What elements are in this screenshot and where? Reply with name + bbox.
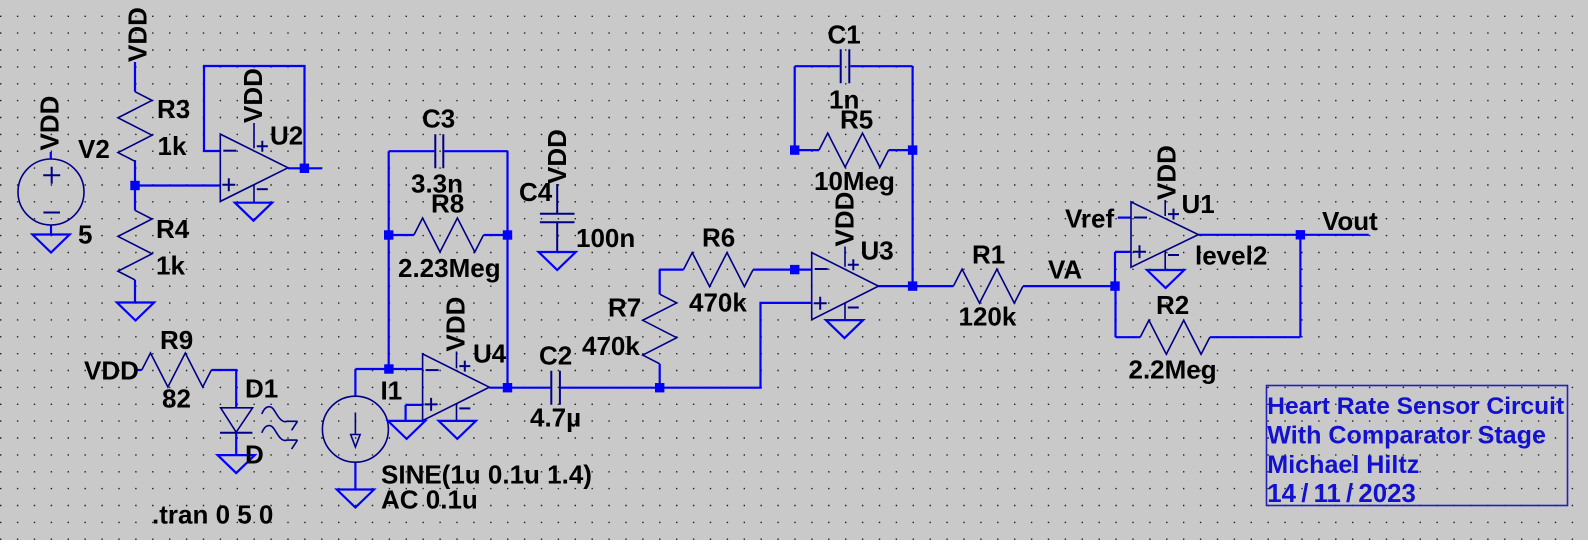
wire feedback down to U4 output	[506, 235, 508, 388]
svg-text:V2: V2	[78, 134, 110, 164]
svg-text:120k: 120k	[959, 302, 1017, 332]
current source I1	[322, 396, 388, 462]
svg-text:VDD: VDD	[84, 356, 139, 386]
resistor R1	[953, 269, 1023, 303]
wire U2 output stub	[288, 167, 322, 169]
capacitor C4	[540, 214, 575, 223]
svg-text:Vref: Vref	[1065, 204, 1114, 234]
svg-text:Heart Rate Sensor Circuit: Heart Rate Sensor Circuit	[1267, 393, 1564, 420]
ground D1	[218, 455, 255, 473]
op-amp U1	[1131, 200, 1198, 270]
wire I1 bottom to ground	[354, 462, 356, 489]
svg-text:C3: C3	[422, 104, 455, 134]
svg-text:U4: U4	[473, 339, 507, 369]
wire VDD label to R9	[135, 369, 142, 371]
wire C2 node to U3 +in	[660, 303, 812, 388]
svg-text:VDD: VDD	[542, 129, 572, 184]
wire R2 right lead	[1210, 336, 1301, 338]
wire R6 to U3 -in	[753, 269, 812, 271]
ground I1	[337, 490, 374, 508]
svg-text:AC 0.1u: AC 0.1u	[381, 485, 478, 515]
svg-text:R2: R2	[1156, 290, 1189, 320]
ground U2	[235, 203, 272, 221]
diode D1	[220, 408, 253, 433]
svg-text:VDD: VDD	[123, 7, 153, 62]
wire V2 top pin	[50, 152, 52, 160]
op-amp U3	[812, 247, 879, 321]
node U3 out	[908, 281, 917, 290]
ground V2	[32, 235, 69, 253]
svg-text:R4: R4	[156, 214, 190, 244]
svg-text:470k: 470k	[582, 331, 640, 361]
svg-text:5: 5	[78, 220, 92, 250]
node U3 -in	[790, 265, 799, 274]
wire U3 output to R1	[879, 285, 954, 287]
wire VA up to U1 +in	[1115, 252, 1131, 286]
wire R5 right lead	[889, 149, 913, 151]
svg-text:1k: 1k	[158, 131, 187, 161]
resistor R9	[142, 353, 212, 387]
svg-text:C1: C1	[828, 20, 861, 50]
svg-text:VDD: VDD	[238, 68, 268, 123]
ground U1	[1147, 270, 1184, 288]
svg-text:R3: R3	[157, 94, 190, 124]
wire R3 to R4	[134, 160, 136, 210]
svg-text:R5: R5	[840, 105, 873, 135]
wire U1 output to Vout	[1198, 234, 1368, 236]
svg-text:470k: 470k	[689, 288, 747, 318]
svg-text:Vout: Vout	[1322, 206, 1378, 236]
ground U4 +in	[388, 421, 425, 439]
svg-text:U2: U2	[270, 121, 303, 151]
node U2 out	[300, 164, 309, 173]
wire I1 to U4 -in	[355, 368, 422, 370]
svg-text:2.2Meg: 2.2Meg	[1129, 355, 1217, 385]
svg-text:4.7µ: 4.7µ	[530, 403, 581, 433]
node A	[384, 364, 393, 373]
ground C4	[539, 252, 576, 270]
wire node A up to feedback	[388, 235, 390, 369]
svg-text:D1: D1	[245, 374, 278, 404]
wire VDD to R3	[134, 62, 136, 92]
svg-text:82: 82	[162, 384, 191, 414]
node R5-C1 right	[908, 145, 917, 154]
node VA	[1110, 281, 1119, 290]
node C2-R7	[655, 383, 664, 392]
op-amp U4	[423, 352, 490, 421]
capacitor C3	[435, 134, 443, 168]
node divider	[130, 181, 139, 190]
node fb left	[384, 230, 393, 239]
svg-text:C4: C4	[519, 177, 553, 207]
voltage source V2	[18, 159, 84, 225]
svg-text:.tran 0 5 0: .tran 0 5 0	[152, 500, 273, 530]
light wave arrow 2	[262, 426, 298, 450]
wire R5 left lead	[795, 149, 819, 151]
resistor R6	[684, 253, 754, 287]
svg-text:VDD: VDD	[441, 297, 471, 352]
wire U4 +in to ground	[406, 405, 423, 421]
wire C3 left branch	[389, 151, 435, 235]
resistor R7	[643, 294, 677, 364]
svg-text:1k: 1k	[156, 251, 185, 281]
wire R6 to R7 link	[660, 270, 684, 295]
svg-text:U1: U1	[1182, 189, 1215, 219]
svg-text:VDD: VDD	[35, 96, 65, 151]
wire R8 left lead	[389, 234, 414, 236]
svg-text:10Meg: 10Meg	[814, 166, 895, 196]
node fb right	[503, 230, 512, 239]
svg-text:With Comparator Stage: With Comparator Stage	[1267, 422, 1546, 450]
wire U4 output to C2	[489, 387, 550, 389]
capacitor C1	[841, 49, 850, 83]
light wave arrow 1	[262, 407, 298, 431]
wire R2 left lead to VA	[1116, 286, 1141, 337]
node Vout	[1296, 230, 1305, 239]
wire R7 bottom lead	[659, 364, 661, 388]
svg-text:2.23Meg: 2.23Meg	[398, 253, 501, 283]
capacitor C2	[551, 371, 560, 405]
resistor R2	[1140, 320, 1210, 354]
wire V2 bottom pin	[50, 225, 52, 235]
svg-text:D: D	[245, 440, 264, 470]
resistor R5	[819, 133, 889, 167]
wire R8 right lead	[484, 234, 508, 236]
svg-text:R1: R1	[972, 240, 1005, 270]
resistor R8	[414, 218, 484, 252]
wire C1 left branch	[795, 66, 840, 150]
wire I1 top pin	[354, 369, 356, 396]
svg-text:I1: I1	[381, 376, 403, 406]
svg-text:R7: R7	[608, 293, 641, 323]
svg-text:R9: R9	[160, 325, 193, 355]
svg-text:level2: level2	[1195, 241, 1267, 271]
op-amp U2	[220, 123, 288, 203]
svg-text:C2: C2	[539, 341, 572, 371]
resistor R4	[118, 210, 152, 280]
wire C3 right branch	[444, 151, 507, 235]
wire U3 feedback down	[911, 150, 913, 286]
wire R4 to ground	[134, 280, 136, 303]
svg-text:R6: R6	[702, 223, 735, 253]
wire C2 to R7 node	[561, 387, 660, 389]
svg-text:VA: VA	[1048, 255, 1082, 285]
node U4 out	[503, 383, 512, 392]
capacitor C4 leads	[556, 184, 558, 252]
svg-text:VDD: VDD	[1152, 145, 1182, 200]
node R5-C1 left	[790, 145, 799, 154]
wire U2 feedback loop	[204, 66, 305, 168]
wire D1 to ground	[235, 433, 237, 455]
ground U3	[826, 320, 863, 338]
wire Vout node down	[1299, 235, 1301, 337]
resistor R3	[118, 92, 152, 162]
svg-text:VDD: VDD	[830, 192, 860, 247]
ground U4 V-	[439, 421, 476, 439]
svg-text:U3: U3	[861, 236, 894, 266]
svg-text:Michael Hiltz: Michael Hiltz	[1267, 451, 1419, 479]
svg-text:100n: 100n	[576, 223, 635, 253]
wire C1 right branch	[850, 66, 912, 150]
title box frame	[1267, 386, 1568, 506]
wire divider node to U2 +in	[135, 184, 220, 186]
wire Vref stub to U1 -in	[1118, 217, 1131, 219]
svg-text:R8: R8	[431, 189, 464, 219]
ground R4	[117, 303, 154, 321]
wire R9 to D1	[211, 370, 236, 408]
wire R1 to node VA	[1023, 285, 1115, 287]
